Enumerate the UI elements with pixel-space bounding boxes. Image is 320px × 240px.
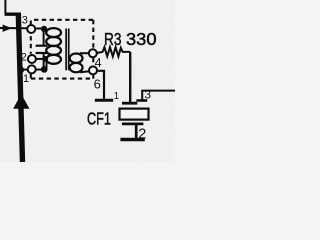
primary coil L1 loop 4	[46, 55, 61, 64]
wire horizontal with signal arrow	[0, 27, 28, 29]
wire pin3 to node	[35, 28, 48, 30]
svg-text:1: 1	[114, 91, 120, 102]
junction dot bottom node	[41, 66, 48, 73]
svg-text:6: 6	[94, 77, 101, 92]
pin 3 terminal	[27, 25, 35, 33]
CF1 ground bar (pin2)	[120, 138, 144, 141]
wire pin4 to R3	[97, 52, 103, 53]
capacitor C bottom plate	[36, 52, 48, 54]
primary coil L1 loop 2	[46, 37, 61, 46]
wire left bus (thick vertical)	[18, 13, 22, 162]
pin 1 terminal	[28, 65, 36, 73]
svg-text:2: 2	[138, 126, 146, 142]
svg-text:330: 330	[126, 29, 157, 49]
junction dot on bus	[18, 67, 25, 74]
wire top-left vertical stub	[4, 0, 6, 15]
primary coil bottom lead	[46, 62, 48, 69]
wire pin6 down to terminal	[97, 71, 104, 100]
wire top-left elbow (thick)	[5, 12, 21, 15]
IFT shield box (dashed) top edge	[34, 19, 93, 21]
signal arrow right	[3, 25, 12, 32]
svg-text:R3: R3	[104, 29, 122, 49]
ceramic filter CF1 body	[120, 109, 149, 120]
tap junction dot	[42, 56, 48, 62]
node junction dot top	[41, 26, 47, 32]
R3 right lead down	[129, 52, 131, 102]
svg-text:CF1: CF1	[87, 109, 111, 129]
IFT shield box right edge	[92, 20, 94, 79]
IFT shield box bottom edge	[31, 78, 93, 80]
CF1 ground electrode bar	[122, 123, 143, 126]
svg-text:2: 2	[21, 52, 27, 64]
resistor R3 zigzag	[103, 47, 131, 56]
pin 2 terminal	[28, 55, 36, 63]
core line 1	[65, 29, 67, 71]
pin 4 terminal	[89, 49, 97, 57]
CF1 ground stem	[135, 125, 138, 139]
secondary top lead to pin4	[80, 52, 89, 54]
terminal bar CF1 pin3	[136, 99, 147, 102]
terminal bar under R3 (CF1 pin1 side)	[122, 102, 137, 105]
primary coil L1 loop 1	[46, 28, 61, 37]
terminal bar under pin6	[95, 99, 113, 102]
capacitor bottom lead	[43, 54, 45, 69]
pin 6 terminal	[89, 66, 97, 74]
svg-text:3: 3	[144, 88, 151, 102]
wire from right edge to CF1 pin3	[142, 91, 175, 100]
signal arrow up on bus	[13, 94, 29, 109]
wire bottom node row	[22, 69, 48, 71]
capacitor C top plate	[36, 45, 48, 47]
primary coil L1 loop 3	[46, 46, 61, 55]
core line 2	[68, 29, 70, 71]
svg-text:4: 4	[95, 56, 102, 70]
secondary coil loop 2	[70, 63, 83, 72]
wire node to capacitor top	[43, 29, 45, 45]
secondary coil loop 1	[70, 54, 83, 63]
secondary bottom lead to pin6	[80, 71, 90, 72]
svg-text:1: 1	[23, 73, 29, 85]
svg-text:3: 3	[22, 15, 28, 27]
IFT shield box left edge	[30, 21, 32, 79]
tap wire pin2 to coil	[36, 58, 47, 60]
